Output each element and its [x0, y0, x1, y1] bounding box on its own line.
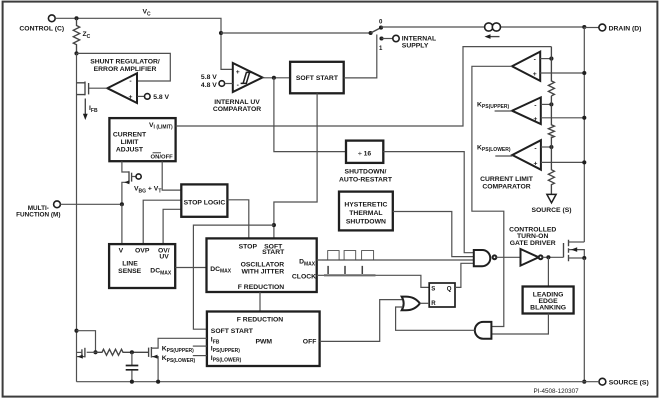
wire PWM OFF output to OR gate input 1: [320, 300, 403, 342]
junction dot at (221,33): [219, 31, 223, 35]
junction dot mirror drain node: [93, 350, 97, 354]
junction dot sense tap 1: [549, 57, 553, 61]
junction dot at (273.9,77.8): [272, 76, 276, 80]
wire switch 0 to drain node: [381, 26, 584, 28]
svg-text:-: -: [237, 82, 239, 89]
junction dot drain rail tap 2: [582, 116, 586, 120]
wire bottom source return rail: [77, 381, 600, 383]
wire OR output to latch R: [420, 302, 429, 304]
resistor R3 sense string: [548, 137, 554, 195]
junction dot source rail at bottom: [582, 380, 586, 384]
transistor Q5 current mirror output MOSFET: [149, 338, 207, 381]
wire left IFB rail: [76, 53, 78, 381]
wire STOP LOGIC output to oscillator STOP: [227, 200, 248, 239]
svg-text:SOFT START: SOFT START: [296, 75, 339, 82]
svg-text:SHUNT REGULATOR/: SHUNT REGULATOR/: [90, 59, 160, 66]
svg-text:COMPARATOR: COMPARATOR: [213, 106, 261, 113]
wire M node down to LINE SENSE V input: [121, 204, 123, 244]
svg-text:LIMIT: LIMIT: [121, 139, 140, 146]
node CURRENT LIMIT COMPARATOR label: [480, 176, 534, 190]
junction dot drain node: [582, 25, 586, 29]
svg-text:ON/OFF: ON/OFF: [151, 155, 174, 161]
gate U8 NAND gate: [474, 250, 497, 266]
box LEADING EDGE BLANKING: [523, 287, 574, 314]
svg-text:BLANKING: BLANKING: [530, 304, 566, 311]
wire LEB output to AND gate input: [491, 314, 548, 335]
junction dot mirror output to source rail: [156, 380, 160, 384]
svg-text:LINE: LINE: [122, 261, 138, 268]
svg-text:PI-4508-120307: PI-4508-120307: [534, 388, 580, 395]
svg-text:F REDUCTION: F REDUCTION: [238, 284, 285, 291]
box OSCILLATOR WITH JITTER: [207, 238, 317, 292]
wire latch Q output to NAND input 4: [455, 263, 474, 287]
latch U6 S-R flip-flop: [429, 283, 455, 307]
wire UV comparator output to SOFT START: [263, 77, 291, 79]
node 5.8V/4.8V threshold terminal: [201, 74, 233, 89]
svg-text:÷ 16: ÷ 16: [358, 151, 371, 158]
comparator U4 KPS(UPPER): [477, 97, 541, 124]
svg-text:COMPARATOR: COMPARATOR: [482, 184, 530, 191]
comparator U2 internal UV comparator: [213, 63, 263, 113]
junction dot control node: [74, 16, 78, 20]
svg-text:STOP: STOP: [239, 243, 258, 250]
svg-text:-: -: [534, 57, 536, 64]
node DRAIN (D) pin: [584, 24, 641, 32]
wire LINE SENSE DCMAX to oscillator: [175, 267, 206, 269]
svg-text:+: +: [129, 94, 133, 101]
svg-text:4.8 V: 4.8 V: [201, 82, 217, 89]
transistor Q2 current limit adjust MOSFET: [122, 161, 161, 204]
transistor Q1 shunt regulator MOSFET: [77, 82, 89, 96]
gate U7 OR gate: [402, 297, 420, 311]
node IFB arrow: [83, 99, 98, 121]
wire U4 plus input to drain rail: [541, 117, 585, 119]
svg-text:SOURCE (S): SOURCE (S): [609, 380, 649, 387]
node INTERNAL SUPPLY terminal: [382, 35, 437, 49]
resistor ZC vertical: [73, 18, 79, 53]
junction dot sense tap 2: [549, 102, 553, 106]
wire source rail down: [583, 258, 585, 382]
wire OV/UV input to STOP LOGIC: [163, 209, 181, 244]
svg-text:UV: UV: [159, 253, 169, 260]
gate U9 controlled turn-on gate driver inverter: [509, 226, 556, 265]
node CONTROL (C) pin: [19, 15, 64, 33]
svg-text:5.8 V: 5.8 V: [201, 74, 217, 81]
wire soft-start branch to PWM: [193, 225, 274, 329]
wire U3 plus input to drain rail: [540, 72, 584, 74]
node SOURCE (S) pin bottom right: [599, 378, 649, 386]
wire IFB mirror loop: [77, 331, 96, 353]
waveform DMAX pulses: [322, 251, 374, 260]
wire from (221,33) to switch common: [221, 32, 371, 34]
comparator U3 current limit (top): [512, 52, 540, 81]
ground SOURCE (S) arrow under sense string: [531, 194, 571, 213]
svg-text:OVP: OVP: [135, 247, 150, 254]
op-amp U1 shunt regulator / error amplifier: [90, 59, 160, 103]
wire drain rail down right side: [583, 27, 585, 242]
gate U10 AND gate (mirrored): [475, 322, 492, 339]
svg-text:SHUTDOWN: SHUTDOWN: [346, 218, 386, 225]
svg-text:PWM: PWM: [255, 339, 272, 346]
node MULTI-FUNCTION (M) pin: [16, 201, 122, 218]
junction dot capacitor to source rail: [130, 380, 134, 384]
svg-text:R: R: [431, 300, 436, 307]
svg-text:-: -: [129, 78, 131, 85]
junction dot at (76.5,53.4): [74, 51, 78, 55]
svg-text:+: +: [236, 69, 240, 76]
wire SOFT START bottom soft-start net: [274, 93, 317, 238]
wire AND output to OR gate input 2: [396, 307, 475, 330]
wire VI(LIMIT) to current limit comparator string: [176, 47, 552, 126]
svg-text:HYSTERETIC: HYSTERETIC: [344, 202, 387, 209]
svg-text:0: 0: [379, 18, 383, 25]
svg-text:+: +: [533, 71, 537, 78]
wire OVP input to STOP LOGIC: [143, 200, 181, 244]
svg-text:ADJUST: ADJUST: [116, 147, 144, 154]
svg-text:FUNCTION (M): FUNCTION (M): [16, 211, 60, 218]
svg-text:START: START: [262, 249, 285, 256]
junction dot drain rail tap 3: [582, 160, 586, 164]
wire NAND output to gate driver: [496, 256, 520, 258]
wire F REDUCTION connector oscillator to PWM: [259, 292, 261, 312]
wire KPS(LOWER) stub to PWM: [193, 355, 207, 357]
svg-text:DRAIN (D): DRAIN (D): [609, 25, 642, 32]
box CURRENT LIMIT ADJUST: [109, 118, 175, 161]
junction dot capacitor tap: [130, 350, 134, 354]
junction dot sense tap 3: [549, 145, 553, 149]
wire U3 output to AND gate via bus: [472, 66, 512, 326]
svg-text:Q: Q: [447, 285, 452, 292]
svg-text:-: -: [534, 102, 536, 109]
wire KPS(UPPER) stub to PWM: [193, 345, 207, 347]
capacitor C1: [126, 352, 139, 381]
svg-text:1: 1: [379, 45, 383, 52]
svg-text:-: -: [534, 145, 536, 152]
wire SOFT START right to switch position 1 rail: [344, 35, 377, 78]
resistor R1 sense string: [548, 47, 554, 96]
node 5.8 V reference at op-amp: [137, 94, 169, 101]
svg-text:SENSE: SENSE: [118, 268, 142, 275]
svg-text:+: +: [533, 116, 537, 123]
junction dot drain rail tap 1: [582, 71, 586, 75]
wire op-amp output to MOSFET gate: [89, 87, 108, 89]
wire ON/OFF down to STOP LOGIC: [162, 161, 181, 190]
switch SW1 supply selector: [369, 18, 384, 52]
junction dot MOSFET source node: [582, 256, 586, 260]
svg-text:GATE DRIVER: GATE DRIVER: [510, 240, 556, 247]
wire U3 minus input to sense tap: [540, 58, 551, 60]
svg-text:S: S: [431, 285, 435, 292]
wire CLOCK output to latch S: [317, 275, 430, 287]
svg-text:OFF: OFF: [303, 339, 317, 346]
svg-text:ERROR AMPLIFIER: ERROR AMPLIFIER: [94, 66, 157, 73]
wire divide-by-16 output to NAND input 1: [383, 152, 474, 253]
svg-text:OSCILLATOR: OSCILLATOR: [241, 262, 285, 269]
wire driver node down to leading edge blanking: [547, 257, 549, 286]
box SOFT START: [290, 62, 344, 94]
current source I1 high-voltage startup: [485, 23, 501, 39]
wire DMAX output to NAND input 3: [317, 259, 474, 261]
wire thermal shutdown output to NAND input 2: [393, 212, 474, 257]
svg-text:SOURCE (S): SOURCE (S): [531, 207, 571, 214]
box LINE SENSE: [109, 244, 175, 288]
svg-text:SUPPLY: SUPPLY: [402, 42, 429, 49]
svg-text:AUTO-RESTART: AUTO-RESTART: [339, 176, 393, 183]
svg-text:THERMAL: THERMAL: [349, 210, 382, 217]
svg-text:CONTROL (C): CONTROL (C): [19, 25, 64, 32]
junction dot soft-start net at (273.9,225.1): [272, 223, 276, 227]
comparator U5 KPS(LOWER): [477, 140, 541, 170]
box PWM: [207, 312, 320, 367]
box STOP LOGIC: [181, 184, 227, 216]
wire UV output down to divide-by-16: [274, 78, 346, 152]
junction dot IFB mirror top: [74, 329, 78, 333]
svg-text:5.8 V: 5.8 V: [153, 94, 169, 101]
svg-text:F REDUCTION: F REDUCTION: [237, 317, 284, 324]
svg-text:CURRENT: CURRENT: [113, 132, 147, 139]
box HYSTERETIC THERMAL SHUTDOWN: [339, 192, 393, 231]
transistor Q3 power MOSFET: [564, 240, 585, 261]
wire U5 plus input to drain rail: [541, 161, 584, 163]
wire shunt regulator feedback loop: [77, 53, 171, 81]
wire U5 minus input to sense tap: [541, 146, 552, 148]
resistor R4 mirror gate resistor: [96, 349, 149, 355]
wire Vc top from CONTROL to corner x=221: [55, 18, 233, 69]
wire U4 minus input to sense tap: [541, 103, 552, 105]
svg-text:CURRENT LIMIT: CURRENT LIMIT: [480, 176, 534, 183]
svg-text:V: V: [119, 247, 124, 254]
svg-text:CLOCK: CLOCK: [292, 273, 316, 280]
svg-text:STOP LOGIC: STOP LOGIC: [184, 200, 226, 207]
junction dot M node: [120, 202, 124, 206]
svg-text:INTERNAL UV: INTERNAL UV: [214, 99, 260, 106]
box divide-by-16 shutdown/auto-restart: [339, 141, 393, 184]
waveform CLOCK ticks: [324, 266, 376, 275]
svg-text:+: +: [534, 160, 538, 167]
svg-text:SHUTDOWN/: SHUTDOWN/: [345, 168, 387, 175]
transistor Q4 current mirror MOSFET: [77, 348, 96, 359]
resistor R2 sense string: [548, 96, 554, 138]
svg-text:WITH JITTER: WITH JITTER: [241, 269, 284, 276]
wire driver output to power MOSFET gate: [543, 256, 564, 258]
svg-text:SOFT START: SOFT START: [211, 328, 254, 335]
junction dot driver output node: [546, 255, 550, 259]
